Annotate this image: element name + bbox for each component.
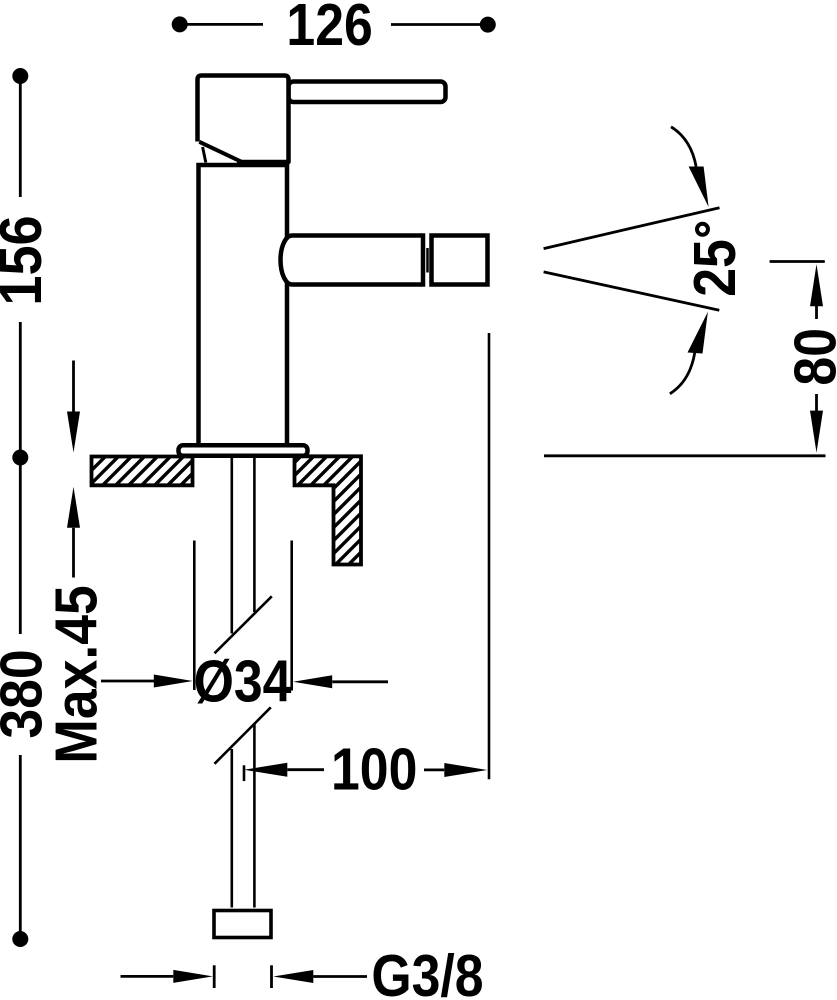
dim 100 left tail	[287, 768, 324, 771]
dim G38 left arrowhead	[173, 970, 213, 983]
supply pipe right line upper	[253, 458, 256, 612]
svg-text:156: 156	[0, 215, 55, 305]
supply pipe left line lower	[231, 749, 234, 908]
handle cap slant edge	[199, 142, 241, 162]
counter surface extension line	[544, 454, 826, 457]
dim Max.45 lower shaft	[72, 528, 75, 578]
base plate	[179, 445, 308, 456]
dim Max.45 upper shaft	[72, 361, 75, 415]
supply pipe right line lower	[253, 724, 256, 908]
dim 380 upper line	[19, 462, 22, 634]
angle label degree circle	[697, 224, 708, 235]
upper break line	[215, 596, 272, 653]
dim O34 left arrowhead	[154, 675, 193, 688]
angle lower arc	[670, 353, 695, 394]
dim 126 right line	[391, 23, 484, 26]
svg-text:G3/8: G3/8	[371, 943, 483, 1000]
dim O34 right extension line	[290, 541, 293, 691]
dim 80 up arrowhead	[810, 264, 823, 306]
dim G38 left tail	[121, 975, 174, 978]
dim 80 upper shaft	[815, 305, 818, 319]
svg-text:Ø34: Ø34	[194, 648, 292, 714]
dim O34 right tail	[332, 680, 388, 683]
lower break line	[215, 707, 271, 764]
dim 126 left dot	[172, 16, 188, 32]
spout	[281, 236, 424, 285]
dim Max.45 down arrowhead	[67, 412, 80, 453]
dim G38 right tail	[313, 975, 367, 978]
supply pipe left line upper	[231, 458, 234, 634]
faucet body	[199, 165, 288, 446]
angle upper arrowhead	[689, 167, 709, 208]
aerator	[432, 236, 488, 285]
counter left block	[92, 457, 193, 486]
dim 156 upper line	[19, 80, 22, 197]
dim 380 lower line	[19, 755, 22, 935]
dim 156 bottom dot	[12, 450, 28, 466]
spout tip extension line	[488, 333, 491, 779]
dim 126 left line	[184, 23, 263, 26]
dim 80 down arrowhead	[810, 411, 823, 453]
dim 380 bottom dot	[12, 931, 28, 947]
angle lower arrowhead	[688, 312, 708, 354]
svg-text:100: 100	[331, 736, 417, 802]
counter right L-block	[295, 456, 362, 564]
handle cap body	[198, 76, 289, 163]
angle upper limit line	[544, 208, 720, 249]
dim 126 right dot	[480, 17, 496, 33]
dim O34 left extension line	[193, 541, 196, 691]
spout-aerator joint	[426, 248, 429, 273]
angle lower limit line	[544, 272, 720, 310]
dim 100 right tail	[424, 769, 444, 772]
dim 100 right arrowhead	[444, 763, 487, 777]
dim 156 lower line	[19, 322, 22, 453]
dim 156 top dot	[12, 68, 28, 84]
dim 100 center tick	[243, 765, 246, 781]
dim 80 lower shaft	[815, 394, 818, 412]
svg-text:80: 80	[782, 328, 837, 386]
connection nut	[214, 911, 271, 938]
svg-text:25: 25	[682, 239, 748, 297]
dim 100 left arrowhead	[244, 763, 287, 777]
dim O34 left tail	[101, 680, 156, 683]
dim 80 top tick	[770, 260, 825, 263]
handle cap inner line	[203, 147, 206, 163]
svg-text:126: 126	[286, 0, 372, 58]
dim Max.45 up arrowhead	[67, 487, 80, 528]
dim G38 right arrowhead	[273, 970, 313, 983]
angle upper arc	[671, 127, 696, 167]
dim G38 right tick	[270, 965, 273, 988]
lever handle	[289, 82, 446, 103]
svg-text:Max.45: Max.45	[43, 585, 109, 764]
dim G38 left tick	[213, 965, 216, 988]
dim O34 right arrowhead	[293, 675, 332, 688]
